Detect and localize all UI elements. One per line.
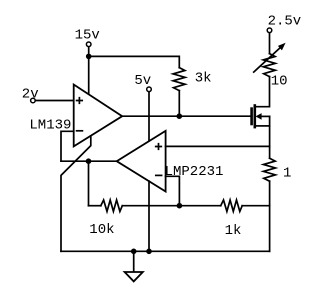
wire 2.5v terminal drop	[269, 33, 271, 54]
resistor R 1 body	[263, 158, 275, 181]
junction dot 15v rail	[86, 54, 92, 60]
plus mark LM139	[77, 98, 83, 104]
terminal 15v	[86, 42, 91, 47]
transistor Q1 gate bar	[250, 107, 253, 125]
svg-text:10: 10	[271, 73, 288, 89]
junction dot ground rail right	[146, 249, 152, 255]
svg-text:2.5v: 2.5v	[268, 13, 302, 29]
transistor Q1 channel bar	[254, 104, 257, 128]
junction dot 3k gate	[177, 113, 183, 119]
svg-text:1k: 1k	[225, 223, 242, 239]
plus mark LMP2231	[156, 144, 162, 150]
svg-text:15v: 15v	[75, 28, 100, 44]
junction dot 10k 1k tap	[177, 203, 183, 209]
op-amp U1 LM139 triangle	[74, 85, 123, 147]
resistor R 3k body	[173, 68, 185, 91]
transistor Q1 body arrow head	[256, 113, 262, 120]
wire bottom ground rail	[61, 250, 270, 252]
wire LM139 output / gate rail	[122, 115, 250, 117]
junction dot feedback node	[86, 158, 92, 164]
potentiometer arrow shaft	[254, 48, 280, 72]
op-amp U2 LMP2231 triangle	[117, 131, 166, 192]
wire LMP2231 ground pin	[148, 181, 150, 251]
resistor R 1k body	[221, 200, 243, 211]
svg-text:10k: 10k	[89, 222, 114, 238]
transistor Q1 drain stub done above; body stub	[259, 115, 270, 117]
svg-text:LMP2231: LMP2231	[165, 164, 224, 180]
transistor Q1 source stub	[256, 125, 270, 127]
svg-text:LM139: LM139	[29, 117, 71, 133]
wire LM139 inverting input routing	[61, 131, 74, 161]
wire LM139 V+ power pin	[88, 56, 90, 95]
wire 5v drop to LMP2231 V+	[148, 92, 150, 142]
wire 1k right to output node	[242, 205, 269, 207]
wire LMP2231 inverting input tap	[166, 176, 180, 205]
wire source down to 1 ohm	[269, 116, 271, 158]
svg-text:2v: 2v	[22, 86, 39, 102]
wire 10k left	[89, 205, 101, 207]
ground symbol	[125, 272, 143, 281]
wire 1 ohm to ground rail	[269, 181, 271, 251]
terminal 5v	[147, 87, 152, 92]
svg-text:5v: 5v	[134, 73, 151, 89]
terminal 2v	[31, 98, 36, 103]
wire LM139 ground pin diagonal to left rail	[61, 136, 91, 252]
minus mark LMP2231	[156, 174, 162, 176]
potentiometer arrow head	[278, 43, 286, 51]
wire top rail 15v to 3k	[89, 56, 180, 67]
wire 3k bottom to gate rail	[178, 91, 180, 117]
wire feedback node to LMP2231 output	[61, 160, 117, 162]
wire LMP2231 noninverting input	[166, 145, 270, 147]
wire feedback node down to 10k	[88, 161, 90, 206]
junction dot ground rail left	[131, 249, 137, 255]
minus mark LM139	[77, 130, 83, 132]
wire pot to mosfet drain	[256, 77, 270, 107]
resistor R 10k body	[101, 200, 123, 211]
svg-text:1: 1	[283, 165, 291, 181]
svg-text:3k: 3k	[195, 71, 212, 87]
wire 15v terminal drop	[88, 47, 90, 57]
wire ground stub	[133, 251, 135, 272]
potentiometer R 10 body	[263, 54, 275, 77]
wire 2v input to LM139 plus	[35, 100, 73, 102]
terminal 2.5v	[267, 28, 272, 33]
wire between 10k and 1k	[122, 205, 220, 207]
